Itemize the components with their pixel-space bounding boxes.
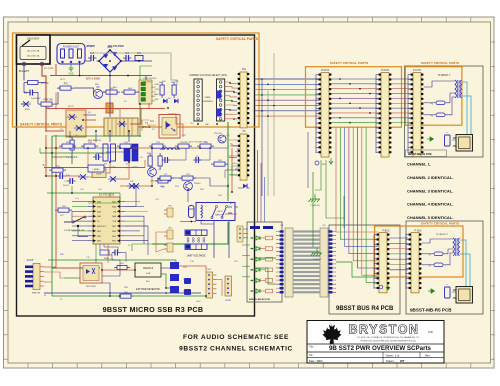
svg-text:JPWR: JPWR bbox=[86, 44, 96, 48]
9BSST MICRO SSB R3 PCB outline bbox=[17, 35, 255, 316]
safety box right-B bbox=[405, 67, 462, 126]
svg-text:MOV: MOV bbox=[25, 109, 31, 111]
wire strip links ch5 bbox=[390, 237, 409, 239]
capacitor C6 bbox=[59, 173, 61, 179]
svg-text:LM385: LM385 bbox=[93, 169, 100, 171]
svg-text:OUT: OUT bbox=[207, 269, 212, 271]
capacitor C1 bbox=[29, 90, 31, 96]
transistor Q10 bbox=[218, 135, 226, 143]
svg-text:PW SW: PW SW bbox=[180, 142, 187, 144]
capacitor C4 bbox=[95, 154, 97, 160]
IC LM385 bbox=[88, 165, 104, 172]
wire AC live red bbox=[42, 66, 46, 109]
safety box bottom clone bbox=[375, 226, 463, 277]
svg-text:JPWR: JPWR bbox=[225, 300, 231, 302]
svg-text:HAKOFF: HAKOFF bbox=[215, 214, 225, 217]
svg-text:SAFETY CRITICAL PARTS: SAFETY CRITICAL PARTS bbox=[421, 222, 460, 226]
fuse F1 bbox=[28, 81, 39, 85]
resistor R70 vertical bbox=[103, 144, 108, 161]
capacitor C7 bbox=[69, 178, 71, 184]
svg-text:CHANNEL 4 IDENTICAL.: CHANNEL 4 IDENTICAL. bbox=[407, 202, 453, 207]
svg-text:MUR: MUR bbox=[97, 174, 102, 176]
svg-text:9BSST-MB-R5 PCB: 9BSST-MB-R5 PCB bbox=[410, 308, 452, 313]
resistor R57 bbox=[158, 179, 168, 183]
header J5 bbox=[225, 276, 232, 296]
svg-text:P-BUS: P-BUS bbox=[382, 231, 389, 233]
svg-text:R1B: R1B bbox=[204, 142, 209, 144]
diode D9 bbox=[80, 174, 86, 179]
AC entry module box bbox=[17, 35, 51, 64]
resistor R62 bbox=[106, 90, 117, 94]
svg-text:SAFETY CRITICAL PARTS: SAFETY CRITICAL PARTS bbox=[20, 123, 63, 127]
title row divider bbox=[307, 343, 444, 345]
wire green mid loop bbox=[71, 186, 73, 193]
resistor R2 thermistor bbox=[60, 86, 71, 90]
svg-text:WO: WO bbox=[322, 164, 326, 166]
wire ch5 transformer bbox=[422, 239, 453, 243]
wire IC1 right feeds bbox=[125, 201, 140, 203]
wire green chassis bottom bbox=[311, 248, 323, 256]
wire ch5 cyan bbox=[452, 240, 466, 292]
resistor R8 vertical bbox=[70, 140, 74, 150]
capacitor stack2 bbox=[184, 278, 191, 284]
diode D13 bbox=[119, 121, 125, 126]
capacitor C14 vertical bbox=[189, 206, 195, 218]
svg-text:JUMPER VOLTAGE SELECT (JP4): JUMPER VOLTAGE SELECT (JP4) bbox=[189, 74, 227, 77]
svg-text:CHANNEL 3 IDENTICAL.: CHANNEL 3 IDENTICAL. bbox=[407, 188, 453, 193]
resistor R22 vertical bbox=[158, 156, 162, 166]
resistor R7 bbox=[160, 176, 171, 180]
label 9BSST-MB-R1 PCB bbox=[406, 150, 447, 157]
svg-text:Title :: Title : bbox=[309, 346, 315, 349]
thermal fuse orange bbox=[106, 103, 113, 113]
wire bottom navy bus bbox=[44, 292, 201, 294]
svg-text:JMP: JMP bbox=[205, 124, 210, 126]
relay K1 bbox=[196, 203, 235, 221]
sheet cell divider bbox=[382, 352, 384, 363]
resistor R15 bbox=[52, 168, 63, 172]
resistor R13 bbox=[178, 144, 189, 148]
svg-text:9BSST BUS R4 PCB: 9BSST BUS R4 PCB bbox=[336, 306, 394, 312]
svg-text:+5V: +5V bbox=[75, 198, 79, 200]
svg-text:BR1: BR1 bbox=[107, 45, 113, 49]
svg-text:P4L: P4L bbox=[242, 68, 247, 71]
svg-text:Drawn :: Drawn : bbox=[386, 359, 395, 363]
wire ch1 cyan bbox=[452, 82, 467, 140]
svg-text:REMOTE: REMOTE bbox=[32, 293, 41, 295]
svg-text:CHANNEL 1.: CHANNEL 1. bbox=[407, 162, 431, 167]
tiny reference labels bbox=[44, 78, 238, 303]
svg-text:SAFETY CRITICAL PARTS: SAFETY CRITICAL PARTS bbox=[330, 61, 369, 65]
arrow green ch1 bbox=[427, 137, 434, 141]
capacitor C19 bbox=[90, 55, 92, 61]
fuse F1 ch5 bbox=[434, 252, 443, 256]
resistor R10 bbox=[84, 144, 95, 148]
svg-text:LM317LZ: LM317LZ bbox=[143, 267, 154, 270]
channel1 MB PCB outline bbox=[405, 66, 484, 157]
wire green rails bbox=[52, 136, 100, 268]
svg-text:R41: R41 bbox=[120, 263, 123, 265]
chassis ground bbox=[309, 194, 321, 202]
wire bus lines to right section bbox=[255, 78, 321, 80]
svg-text:P1-BUS: P1-BUS bbox=[381, 70, 390, 72]
IC6 LM317 bbox=[135, 263, 161, 277]
svg-text:BLK WHT: BLK WHT bbox=[19, 70, 30, 73]
capacitor C10 bbox=[164, 157, 166, 163]
transistor Q5 bbox=[93, 89, 102, 98]
header J-OUT bbox=[206, 272, 213, 298]
wire bottom band bbox=[102, 269, 135, 271]
svg-text:9BSST2 CHANNEL SCHEMATIC: 9BSST2 CHANNEL SCHEMATIC bbox=[179, 346, 293, 353]
svg-text:Rev :: Rev : bbox=[425, 353, 431, 357]
safety box right-A bbox=[306, 67, 402, 128]
diode D14 bbox=[129, 183, 135, 188]
svg-text:PN100: PN100 bbox=[194, 183, 201, 185]
wire led top feeds bbox=[257, 150, 259, 222]
bridge rectifier BR1 bbox=[99, 50, 121, 72]
wire P6 to relay bbox=[229, 139, 237, 141]
svg-text:-25V: -25V bbox=[151, 101, 156, 103]
wire navy net1 bbox=[125, 186, 136, 206]
svg-text:PTC: PTC bbox=[64, 84, 69, 86]
svg-text:POWER INLET: POWER INLET bbox=[63, 46, 80, 49]
wire green bottom links bbox=[255, 257, 277, 259]
svg-text:GND: GND bbox=[68, 73, 74, 76]
svg-text:P-CH5: P-CH5 bbox=[415, 231, 423, 233]
svg-text:1uF/250V: 1uF/250V bbox=[31, 98, 41, 100]
svg-text:PROTECT: PROTECT bbox=[143, 82, 153, 84]
terminal AC live bbox=[40, 62, 44, 66]
svg-text:ACOP: ACOP bbox=[27, 259, 34, 262]
svg-text:FOR AUDIO SCHEMATIC SEE: FOR AUDIO SCHEMATIC SEE bbox=[183, 334, 289, 341]
opto-isolator IC4 CNY17-2 bbox=[159, 115, 180, 139]
ground symbol WO bbox=[315, 161, 319, 165]
svg-text:C19: C19 bbox=[90, 52, 95, 55]
junction dots bus links bbox=[261, 78, 263, 80]
svg-text:V+: V+ bbox=[42, 163, 46, 167]
varistor MOV1 bbox=[23, 101, 29, 106]
svg-text:IC1 PIC16C55: IC1 PIC16C55 bbox=[99, 194, 115, 197]
svg-text:EXT PWR DETECTOR: EXT PWR DETECTOR bbox=[136, 289, 160, 291]
resistor R14 bbox=[200, 144, 211, 148]
arrow green ch5 bbox=[428, 289, 435, 293]
ribbon cable J-BUS bbox=[285, 228, 293, 297]
svg-text:File :: File : bbox=[309, 355, 314, 357]
wire navy net2 bbox=[170, 148, 186, 160]
svg-text:CHANNEL 5 IDENTICAL.: CHANNEL 5 IDENTICAL. bbox=[407, 215, 453, 220]
svg-text:LOCAL/REMOTE ON: LOCAL/REMOTE ON bbox=[64, 229, 84, 232]
wire led feeds bbox=[242, 244, 250, 246]
svg-text:PHONE (705) 742-5325 FAX (7: PHONE (705) 742-5325 FAX (705) 742-0882 … bbox=[361, 339, 417, 342]
svg-text:9B SST2 PWR OVERVIEW SCParts: 9B SST2 PWR OVERVIEW SCParts bbox=[329, 345, 432, 352]
svg-text:P1-BUS: P1-BUS bbox=[321, 70, 330, 72]
small header JP8 bbox=[237, 226, 243, 242]
big filter capacitor C2 bbox=[124, 144, 130, 161]
resistor R20 bbox=[58, 208, 69, 212]
connector P6 bbox=[240, 134, 247, 180]
wire dc filter rail top bbox=[85, 60, 91, 62]
capacitor C9 bbox=[195, 157, 197, 163]
jumper block row1 bbox=[185, 230, 207, 235]
svg-text:WT: WT bbox=[400, 359, 405, 363]
svg-text:TF-9BSST-7: TF-9BSST-7 bbox=[438, 75, 451, 77]
wire cross bundle verticals bbox=[261, 79, 263, 196]
resistor R64 vertical bbox=[160, 85, 164, 95]
bridge BR2 bbox=[66, 110, 86, 137]
wire relay bypass bbox=[45, 87, 47, 89]
svg-text:BRYSTON: BRYSTON bbox=[349, 323, 420, 337]
svg-text:RLY/: RLY/ bbox=[218, 211, 223, 213]
AC socket ch1 bbox=[456, 135, 473, 152]
svg-text:+25V: +25V bbox=[151, 92, 156, 94]
wire IC1 left feeds bbox=[72, 201, 88, 203]
svg-text:TURN-ON THRESHOLD: TURN-ON THRESHOLD bbox=[52, 157, 78, 159]
svg-text:CHANNEL 2 IDENTICAL.: CHANNEL 2 IDENTICAL. bbox=[407, 175, 453, 180]
svg-text:C4 100n: C4 100n bbox=[96, 153, 104, 155]
wire vertical bundle to bus bbox=[336, 128, 378, 233]
svg-text:BPO-2E: BPO-2E bbox=[142, 127, 151, 129]
regulator REG1 bbox=[92, 169, 106, 178]
fuse F2 ch1 bbox=[436, 113, 445, 117]
diode D10 bbox=[110, 176, 116, 181]
svg-text:MSCLR/T: MSCLR/T bbox=[97, 226, 107, 228]
wire P4L feeds bbox=[225, 82, 237, 84]
switch lever bbox=[22, 40, 30, 46]
jumper block row2 bbox=[185, 244, 207, 249]
capacitor C20 bbox=[125, 55, 127, 61]
wire row3 bbox=[46, 147, 62, 149]
svg-text:120V/230V: 120V/230V bbox=[27, 37, 40, 41]
transistor Q7 bbox=[184, 182, 193, 191]
maple leaf logo bbox=[322, 323, 341, 345]
fuse F2 ch5 bbox=[434, 263, 443, 267]
svg-text:22u/25: 22u/25 bbox=[63, 185, 69, 187]
wire green verticals gap bbox=[312, 172, 314, 247]
jumper strip JP4b bbox=[217, 79, 225, 121]
crystal X1 bbox=[100, 250, 109, 255]
svg-text:200-240V 4A: 200-240V 4A bbox=[27, 55, 40, 58]
switch S1 local-remote bbox=[64, 221, 72, 223]
diode D11 bbox=[133, 183, 139, 188]
9BSST BUS R4 PCB outline bbox=[329, 225, 400, 314]
wire red relay net bbox=[231, 148, 233, 192]
wire navy verticals mid bbox=[109, 131, 111, 142]
svg-text:AC LIVE: AC LIVE bbox=[44, 67, 54, 70]
svg-text:ADJ: ADJ bbox=[146, 280, 150, 283]
svg-text:TF-9BSST-7: TF-9BSST-7 bbox=[436, 234, 449, 236]
svg-text:Sheet : 1 of: Sheet : 1 of bbox=[386, 353, 400, 357]
header PT3 bbox=[167, 243, 173, 252]
wire left loop bbox=[24, 83, 27, 93]
resistor R17 bbox=[182, 176, 193, 180]
svg-text:SAFETY CRITICAL PARTS: SAFETY CRITICAL PARTS bbox=[421, 61, 460, 65]
junction dots bbox=[109, 60, 111, 62]
svg-text:9BSST-MB-R1 PCB: 9BSST-MB-R1 PCB bbox=[408, 152, 432, 156]
svg-text:GND: GND bbox=[196, 301, 201, 303]
svg-text:P1-CH1: P1-CH1 bbox=[413, 70, 422, 72]
wire relay leads bbox=[187, 191, 189, 203]
wire red secondary bbox=[55, 135, 57, 198]
AC socket ch5 bbox=[456, 287, 473, 304]
jumper header pins bbox=[187, 238, 189, 240]
svg-text:VCA: VCA bbox=[146, 272, 151, 275]
wire AC neutral bbox=[23, 66, 25, 81]
svg-text:470K 3W: 470K 3W bbox=[43, 100, 53, 102]
voltage selector inner box bbox=[20, 47, 46, 60]
IC1 PIC16C55 microcontroller bbox=[93, 197, 120, 244]
capacitor C31 stack bbox=[170, 262, 179, 269]
svg-text:JUMPERS: JUMPERS bbox=[202, 101, 213, 103]
svg-text:9BSST-LED-R2 PCB: 9BSST-LED-R2 PCB bbox=[249, 299, 270, 301]
wire ch1 transformer bbox=[424, 81, 455, 87]
resistor R21 vertical bbox=[148, 156, 152, 166]
svg-text:LTD: LTD bbox=[428, 330, 433, 334]
svg-text:CHASSIS: CHASSIS bbox=[310, 204, 320, 207]
wire red main rail bbox=[46, 108, 165, 110]
svg-text:SAFETY CRITICAL PARTS: SAFETY CRITICAL PARTS bbox=[216, 37, 259, 41]
svg-text:GND: GND bbox=[151, 96, 156, 98]
svg-text:CHASSIS: CHASSIS bbox=[313, 258, 322, 261]
wire V+ rail bbox=[44, 167, 145, 169]
arrow down green bbox=[329, 158, 333, 164]
resistor R11 bbox=[120, 144, 131, 148]
header PT2 bbox=[167, 230, 173, 239]
svg-text:BTA 3-600B: BTA 3-600B bbox=[86, 77, 100, 81]
svg-text:WIRE: WIRE bbox=[205, 97, 211, 99]
resistor R41 bbox=[117, 266, 127, 270]
resistor R23 bbox=[214, 162, 225, 166]
svg-text:SPIKE/SURGE: SPIKE/SURGE bbox=[143, 78, 157, 80]
svg-text:TH1: TH1 bbox=[115, 109, 120, 111]
resistor HR1 bbox=[62, 144, 73, 148]
inductor L1 bbox=[164, 148, 176, 150]
earth ground symbol bbox=[69, 64, 74, 71]
resistor R63 bbox=[124, 90, 135, 94]
transistor Q6 bbox=[148, 168, 157, 177]
resistor R71 vertical bbox=[111, 144, 116, 161]
svg-text:C21: C21 bbox=[137, 52, 142, 55]
svg-text:MOC3063: MOC3063 bbox=[86, 286, 96, 288]
title block box bbox=[307, 321, 444, 364]
svg-text:9BSST MICRO SSB R3 PCB: 9BSST MICRO SSB R3 PCB bbox=[103, 305, 204, 314]
big filter capacitor C3 bbox=[132, 144, 138, 161]
resistor R65 vertical bbox=[172, 85, 176, 95]
connector JPWR power inlet bbox=[57, 44, 85, 65]
diode D15 bbox=[243, 184, 247, 188]
svg-text:IC4: IC4 bbox=[150, 120, 154, 123]
svg-text:Date : 9803: Date : 9803 bbox=[309, 359, 323, 363]
wire strip links ch1 bbox=[332, 78, 379, 80]
9BSST-LED-R2 PCB bbox=[247, 222, 282, 302]
resistor R12 bbox=[152, 144, 163, 148]
terminal AC neutral bbox=[22, 62, 26, 66]
svg-text:P.O. BOX 2170, 677 NEAL DR. PE: P.O. BOX 2170, 677 NEAL DR. PETERBOROUGH… bbox=[357, 336, 419, 339]
terminal block TB1 bbox=[139, 80, 152, 104]
wire IC1 bottom nets bbox=[99, 244, 101, 250]
safety box top bbox=[13, 33, 260, 127]
ground WO bottom clone bbox=[379, 285, 383, 289]
capacitor C21 bbox=[135, 56, 143, 61]
resistor R6 470K bbox=[41, 102, 52, 106]
opto IC5 bbox=[80, 263, 102, 283]
capacitor ch1 bbox=[445, 135, 451, 146]
resistor R40 bbox=[120, 294, 131, 298]
channel5 MB PCB outline bbox=[406, 221, 483, 314]
svg-text:R21: R21 bbox=[147, 153, 150, 155]
transformer T1 bbox=[104, 118, 138, 136]
svg-text:+40V: +40V bbox=[154, 84, 160, 86]
wire dc filter rail bottom bbox=[50, 75, 152, 77]
jumper strip JP4a bbox=[194, 79, 202, 121]
svg-text:UNIT VOLTAGE: UNIT VOLTAGE bbox=[187, 254, 206, 258]
svg-text:+40V: +40V bbox=[151, 87, 156, 89]
fuse F1 ch1 bbox=[436, 101, 445, 105]
svg-text:MOV2: MOV2 bbox=[68, 106, 75, 108]
wire grey shield bbox=[90, 53, 177, 85]
svg-text:100-120V 8A: 100-120V 8A bbox=[27, 50, 40, 53]
diode D12 bbox=[163, 99, 167, 103]
wire red misc bbox=[87, 148, 89, 165]
svg-text:C20: C20 bbox=[125, 52, 130, 55]
capacitor ch5 bbox=[445, 287, 451, 298]
wire navy h mid bbox=[83, 114, 96, 116]
header PT1 bbox=[167, 208, 173, 217]
